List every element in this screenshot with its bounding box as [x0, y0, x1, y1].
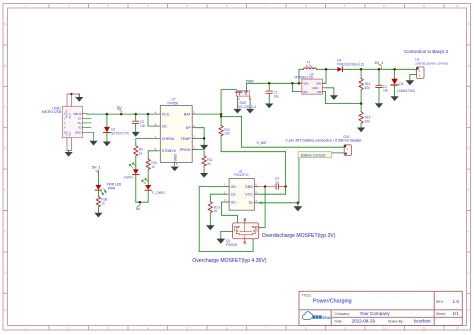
svg-text:VCC: VCC	[245, 193, 253, 197]
svg-text:Battery Connect: Battery Connect	[301, 153, 325, 157]
svg-text:6: 6	[226, 4, 228, 8]
svg-text:Your Company: Your Company	[360, 311, 391, 316]
diode D4 PMEG1020EA,115	[337, 59, 364, 72]
resistor R14 62k	[359, 69, 371, 105]
resistor R13 2k	[208, 201, 220, 225]
resistor R12 100	[219, 114, 230, 136]
ground (U7 GND pin)	[171, 167, 179, 172]
wire EN tie to VIN	[291, 82, 302, 92]
svg-text:1k: 1k	[139, 152, 143, 156]
wire STDBY# to R10	[148, 151, 157, 159]
wire L1 to D4, SW riser	[317, 68, 338, 83]
svg-text:TEMP: TEMP	[181, 137, 192, 141]
inductor L1 4.7u	[304, 60, 317, 69]
diode D2 BZT52C7V5	[103, 113, 129, 142]
wire LED CHRG down	[135, 175, 137, 202]
svg-text:20950012EANG-10YAGE: 20950012EANG-10YAGE	[415, 61, 448, 65]
svg-text:7: 7	[265, 327, 267, 331]
wire OD loop to Q1 bottom	[199, 187, 253, 252]
svg-text:100: 100	[224, 132, 230, 136]
resistor R9 1k	[134, 146, 143, 156]
svg-text:STDBY#: STDBY#	[162, 149, 176, 153]
wire TD row to ground junction	[258, 202, 300, 207]
svg-text:62k: 62k	[365, 86, 371, 90]
wire R10 to LED F_CHRG	[147, 169, 149, 184]
node 5V_1 flag (rail)	[375, 61, 384, 69]
ground (H1 pin2)	[405, 80, 414, 85]
svg-text:5: 5	[186, 327, 188, 331]
svg-text:CHRG#: CHRG#	[162, 137, 175, 141]
svg-text:TD: TD	[248, 201, 253, 205]
resistor R10 1k	[146, 159, 157, 169]
wire BAT to main junction	[195, 113, 222, 118]
switch SW2 SS-12D11L3	[236, 83, 257, 109]
USB1 GND pin wire to ground	[83, 132, 98, 145]
svg-text:G: G	[467, 271, 470, 275]
svg-text:TITLE:: TITLE:	[302, 294, 312, 298]
svg-text:4: 4	[147, 327, 149, 331]
ground (U6 GND)	[330, 95, 338, 100]
wire PROG to R11	[195, 150, 204, 156]
wire OC to Q1 gate	[222, 202, 238, 223]
LED PWR chain: node 5V_1 flag	[92, 166, 101, 185]
svg-text:CN3: CN3	[343, 135, 350, 139]
svg-text:bcorbett: bcorbett	[414, 319, 431, 324]
USB1 pin stubs D- D+ ID	[83, 118, 92, 127]
USB1 shield pins to bottom ground	[67, 138, 71, 152]
svg-text:EP: EP	[186, 126, 191, 130]
svg-text:4.7u: 4.7u	[306, 64, 312, 68]
svg-text:USB: USB	[66, 131, 69, 136]
ground (Q1 source)	[216, 239, 225, 244]
svg-text:1: 1	[25, 327, 27, 331]
wire V_BAT to CN3 pin1	[221, 116, 342, 147]
svg-text:CE: CE	[162, 125, 168, 129]
wire CS to R13	[210, 194, 226, 201]
svg-text:Drawn By:: Drawn By:	[388, 320, 404, 324]
svg-text:12: 12	[455, 327, 459, 331]
svg-text:FS312F-G: FS312F-G	[234, 173, 249, 177]
svg-text:2 pin JST battery connector /: 2 pin JST battery connector / 2.54mm hea…	[286, 138, 363, 142]
ground (R15)	[357, 128, 365, 133]
svg-text:9: 9	[344, 4, 346, 8]
svg-text:VBUS: VBUS	[73, 112, 81, 116]
svg-text:2: 2	[68, 4, 70, 8]
wire 5V net (VBUS to U7 VCC)	[83, 113, 158, 116]
capacitor C2 10u	[376, 69, 389, 103]
svg-text:5V: 5V	[117, 106, 122, 110]
svg-text:3: 3	[107, 327, 109, 331]
svg-text:5V: 5V	[136, 207, 141, 211]
svg-text:10u: 10u	[274, 94, 280, 98]
svg-text:10: 10	[383, 4, 387, 8]
svg-text:8: 8	[305, 327, 307, 331]
svg-text:6: 6	[226, 327, 228, 331]
ground (D2)	[103, 142, 111, 147]
svg-text:3: 3	[107, 4, 109, 8]
svg-text:1: 1	[25, 4, 27, 8]
svg-text:1u: 1u	[276, 180, 280, 184]
svg-text:VIN: VIN	[303, 82, 308, 86]
connector CN3 battery	[343, 135, 352, 156]
resistor R15 20k	[359, 104, 371, 128]
svg-text:REV:: REV:	[436, 300, 444, 304]
svg-text:MICRO: MICRO	[66, 110, 69, 118]
ground (R13)	[206, 225, 215, 230]
svg-text:TP4056: TP4056	[167, 101, 178, 105]
LED F_CHRG	[142, 178, 166, 195]
svg-text:FS8205: FS8205	[226, 243, 237, 247]
svg-text:OD: OD	[231, 185, 237, 189]
ground (SW2 pin4)	[233, 109, 241, 114]
svg-text:G: G	[4, 271, 7, 275]
svg-text:VCC: VCC	[162, 113, 170, 117]
svg-text:PWR: PWR	[108, 186, 116, 190]
svg-text:2: 2	[68, 327, 70, 331]
wire R11 to ground	[203, 166, 205, 173]
ground (R11)	[200, 173, 208, 178]
svg-text:5V_1: 5V_1	[375, 61, 384, 65]
svg-text:VBUS: VBUS	[69, 113, 71, 119]
svg-text:2022-08-29: 2022-08-29	[352, 319, 376, 324]
ground (C3)	[132, 132, 140, 137]
svg-text:GND: GND	[75, 131, 83, 135]
svg-text:5: 5	[186, 4, 188, 8]
svg-text:EN: EN	[303, 90, 307, 94]
svg-text:2k: 2k	[214, 209, 218, 213]
ground (SW2 pin5)	[246, 109, 254, 114]
connector USB1 MICRO USB body	[42, 106, 83, 137]
wire U6 GND to ground	[326, 88, 334, 95]
wire FB feedback	[326, 92, 362, 104]
text Battery Connect callout	[298, 152, 332, 158]
svg-text:2k: 2k	[207, 162, 211, 166]
svg-text:8: 8	[305, 4, 307, 8]
svg-text:V_BAT: V_BAT	[257, 141, 268, 145]
svg-text:7: 7	[265, 4, 267, 8]
connector H1 header	[415, 58, 449, 79]
wire VIN riser to L1	[298, 69, 304, 84]
USB1 shield pins to top ground	[67, 93, 79, 106]
wire CE branch	[147, 113, 157, 126]
svg-text:Connection to Basys 3: Connection to Basys 3	[404, 49, 448, 54]
svg-text:9: 9	[344, 327, 346, 331]
svg-text:1k: 1k	[101, 201, 105, 205]
svg-text:GND: GND	[312, 86, 320, 90]
svg-text:GND: GND	[245, 185, 253, 189]
svg-text:D+: D+	[78, 121, 82, 125]
ground (C2)	[375, 103, 383, 108]
svg-text:1SMA4734A: 1SMA4734A	[397, 89, 416, 93]
svg-text:D-: D-	[78, 117, 81, 121]
wire H1 pin2 to ground	[410, 74, 415, 80]
EasyEDA logo	[303, 312, 331, 320]
svg-text:12: 12	[455, 4, 459, 8]
svg-text:1/1: 1/1	[453, 311, 460, 316]
diode D5 1SMA4734A zener	[391, 69, 416, 96]
ground (USB shield bottom)	[65, 152, 73, 157]
svg-text:20k: 20k	[365, 119, 371, 123]
wire junction up to SW2	[221, 90, 237, 115]
wire GND junction down to Q1 right pin	[260, 187, 265, 228]
svg-text:GND: GND	[173, 154, 177, 162]
svg-text:F: F	[468, 229, 470, 233]
wire R9 to LED CHRG	[135, 156, 137, 169]
svg-text:5V_1: 5V_1	[92, 166, 101, 170]
LED PWR	[95, 183, 122, 195]
svg-text:Date:: Date:	[335, 320, 343, 324]
svg-text:10u: 10u	[383, 89, 389, 93]
node 5V flag (bottom)	[136, 202, 141, 211]
boost converter U6 MT3540-F25	[295, 72, 326, 94]
svg-text:GND: GND	[69, 131, 71, 136]
svg-text:FB: FB	[317, 90, 321, 94]
resistor R11 2k	[202, 156, 213, 166]
wire CN3 pin2 down to protection gnd	[299, 153, 343, 203]
svg-text:OC: OC	[231, 200, 237, 204]
svg-text:Overdischarge MOSFET(typ 3V): Overdischarge MOSFET(typ 3V)	[262, 233, 336, 239]
svg-text:F_CHRG: F_CHRG	[152, 191, 166, 195]
capacitor C4 1u	[258, 177, 287, 189]
svg-text:BAT: BAT	[184, 113, 192, 117]
transistor Q1 FS8205 dual MOSFET	[221, 219, 260, 247]
svg-text:Company:: Company:	[335, 312, 351, 316]
svg-text:CS: CS	[231, 193, 237, 197]
svg-text:D5: D5	[399, 82, 403, 86]
svg-text:F: F	[4, 229, 6, 233]
svg-text:1.0: 1.0	[453, 299, 460, 304]
svg-text:EDA: EDA	[322, 315, 330, 320]
svg-text:MICRO USB: MICRO USB	[42, 110, 62, 114]
ground (C1)	[265, 104, 273, 109]
svg-text:10n: 10n	[140, 124, 146, 128]
op-amp U7 TP4056 charger IC	[155, 98, 196, 167]
wire LED F_CHRG down and bottom 5V tie	[136, 191, 148, 204]
wire R12 down to U1 VCC feed	[221, 136, 286, 187]
title block	[299, 291, 462, 325]
svg-text:11: 11	[422, 4, 426, 8]
node 5V flag	[117, 106, 122, 116]
wire 5V_1 rail	[343, 68, 415, 71]
LED CHRG	[124, 163, 139, 180]
svg-text:CHRG: CHRG	[124, 176, 134, 180]
svg-text:Power/Charging: Power/Charging	[313, 298, 352, 304]
svg-text:PROG: PROG	[180, 148, 191, 152]
svg-text:Overcharge MOSFET(typ 4.35V): Overcharge MOSFET(typ 4.35V)	[192, 258, 266, 264]
capacitor C3 10n	[133, 113, 146, 132]
svg-text:PMEG1020EA,115: PMEG1020EA,115	[337, 62, 364, 66]
svg-text:Sheet:: Sheet:	[436, 312, 446, 316]
svg-text:10: 10	[383, 327, 387, 331]
wire PWR rail	[246, 79, 302, 83]
wire VCC feed from C4 junction	[258, 187, 286, 195]
svg-text:BZT52C7V5: BZT52C7V5	[111, 131, 129, 135]
wire EP/TEMP tie	[195, 128, 205, 145]
ground (D5)	[391, 96, 399, 101]
protection IC U1 FS312F-G	[224, 169, 257, 210]
ground (TD / battery minus)	[293, 206, 302, 211]
ground (R38)	[94, 213, 102, 218]
svg-text:MT3540-F25: MT3540-F25	[295, 76, 313, 80]
resistor R38 1k	[96, 190, 107, 212]
svg-text:SS-12D11L3: SS-12D11L3	[238, 105, 256, 109]
capacitor C1 10u	[266, 82, 279, 103]
svg-text:4: 4	[147, 4, 149, 8]
svg-text:PWR: PWR	[246, 79, 254, 83]
svg-text:11: 11	[422, 327, 426, 331]
ground (USB shield top)	[75, 94, 83, 102]
wire CHRG# to R9	[136, 139, 157, 146]
ground (TEMP/EP)	[200, 145, 208, 150]
svg-text:1k: 1k	[151, 165, 155, 169]
svg-text:SW: SW	[316, 82, 321, 86]
